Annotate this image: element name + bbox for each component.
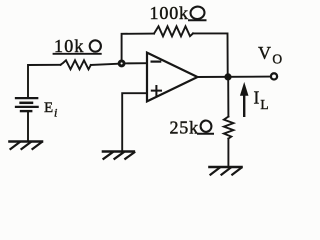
svg-text:Ei: Ei	[44, 100, 57, 120]
label 10kΩ (underlined)	[54, 53, 101, 55]
wire R3 to ground	[227, 139, 229, 167]
resistor R2 100kΩ	[154, 26, 193, 36]
resistor R3 25kΩ (vertical)	[224, 117, 234, 139]
svg-text:VO: VO	[258, 43, 282, 67]
ground (right, under R3)	[210, 166, 242, 169]
wire battery top to 10k resistor	[28, 65, 61, 98]
ground (middle, at non-inverting input)	[103, 150, 134, 153]
svg-text:IL: IL	[254, 88, 269, 113]
wire R1 to inverting input node	[91, 64, 119, 65]
ground (left, under battery)	[10, 140, 43, 143]
op-amp non-inverting pin marker (plus)	[152, 86, 161, 95]
wire node B down to 25k resistor	[227, 77, 229, 117]
wire op-amp output to terminal	[198, 76, 271, 78]
op-amp inverting pin marker (minus)	[152, 60, 161, 62]
battery E (source Ei)	[16, 97, 37, 99]
node B output junction	[225, 74, 231, 80]
svg-text:25k: 25k	[170, 118, 199, 138]
wire feedback loop (left leg, top run, right leg)	[122, 34, 154, 61]
op-amp U1	[147, 53, 198, 102]
resistor R1 10kΩ	[61, 60, 91, 69]
wire battery to ground	[27, 111, 29, 141]
label 25kΩ ohm glyph	[197, 120, 214, 134]
current arrow IL	[243, 92, 245, 116]
wire node A to op-amp inverting input	[124, 62, 146, 64]
terminal Vo (open circle)	[271, 73, 277, 79]
svg-text:100k: 100k	[150, 3, 189, 23]
wire op-amp non-inverting input to ground	[122, 93, 147, 151]
node A inverting input junction	[119, 61, 124, 66]
label 10kΩ ohm glyph	[89, 40, 102, 53]
svg-text:10k: 10k	[54, 36, 85, 56]
label 100kΩ ohm glyph	[188, 6, 207, 21]
